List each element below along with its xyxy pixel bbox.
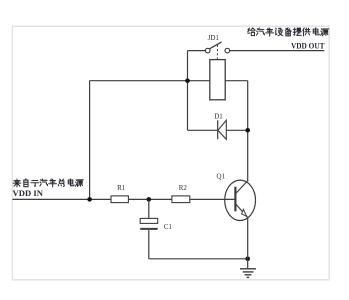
svg-text:D1: D1 <box>214 112 223 120</box>
svg-text:R1: R1 <box>117 184 126 192</box>
svg-text:Q1: Q1 <box>217 173 226 181</box>
svg-text:VDD IN: VDD IN <box>13 188 44 198</box>
svg-text:JD1: JD1 <box>208 34 220 42</box>
svg-text:R2: R2 <box>179 184 188 192</box>
svg-text:C1: C1 <box>164 223 173 231</box>
svg-text:VDD OUT: VDD OUT <box>291 41 325 51</box>
